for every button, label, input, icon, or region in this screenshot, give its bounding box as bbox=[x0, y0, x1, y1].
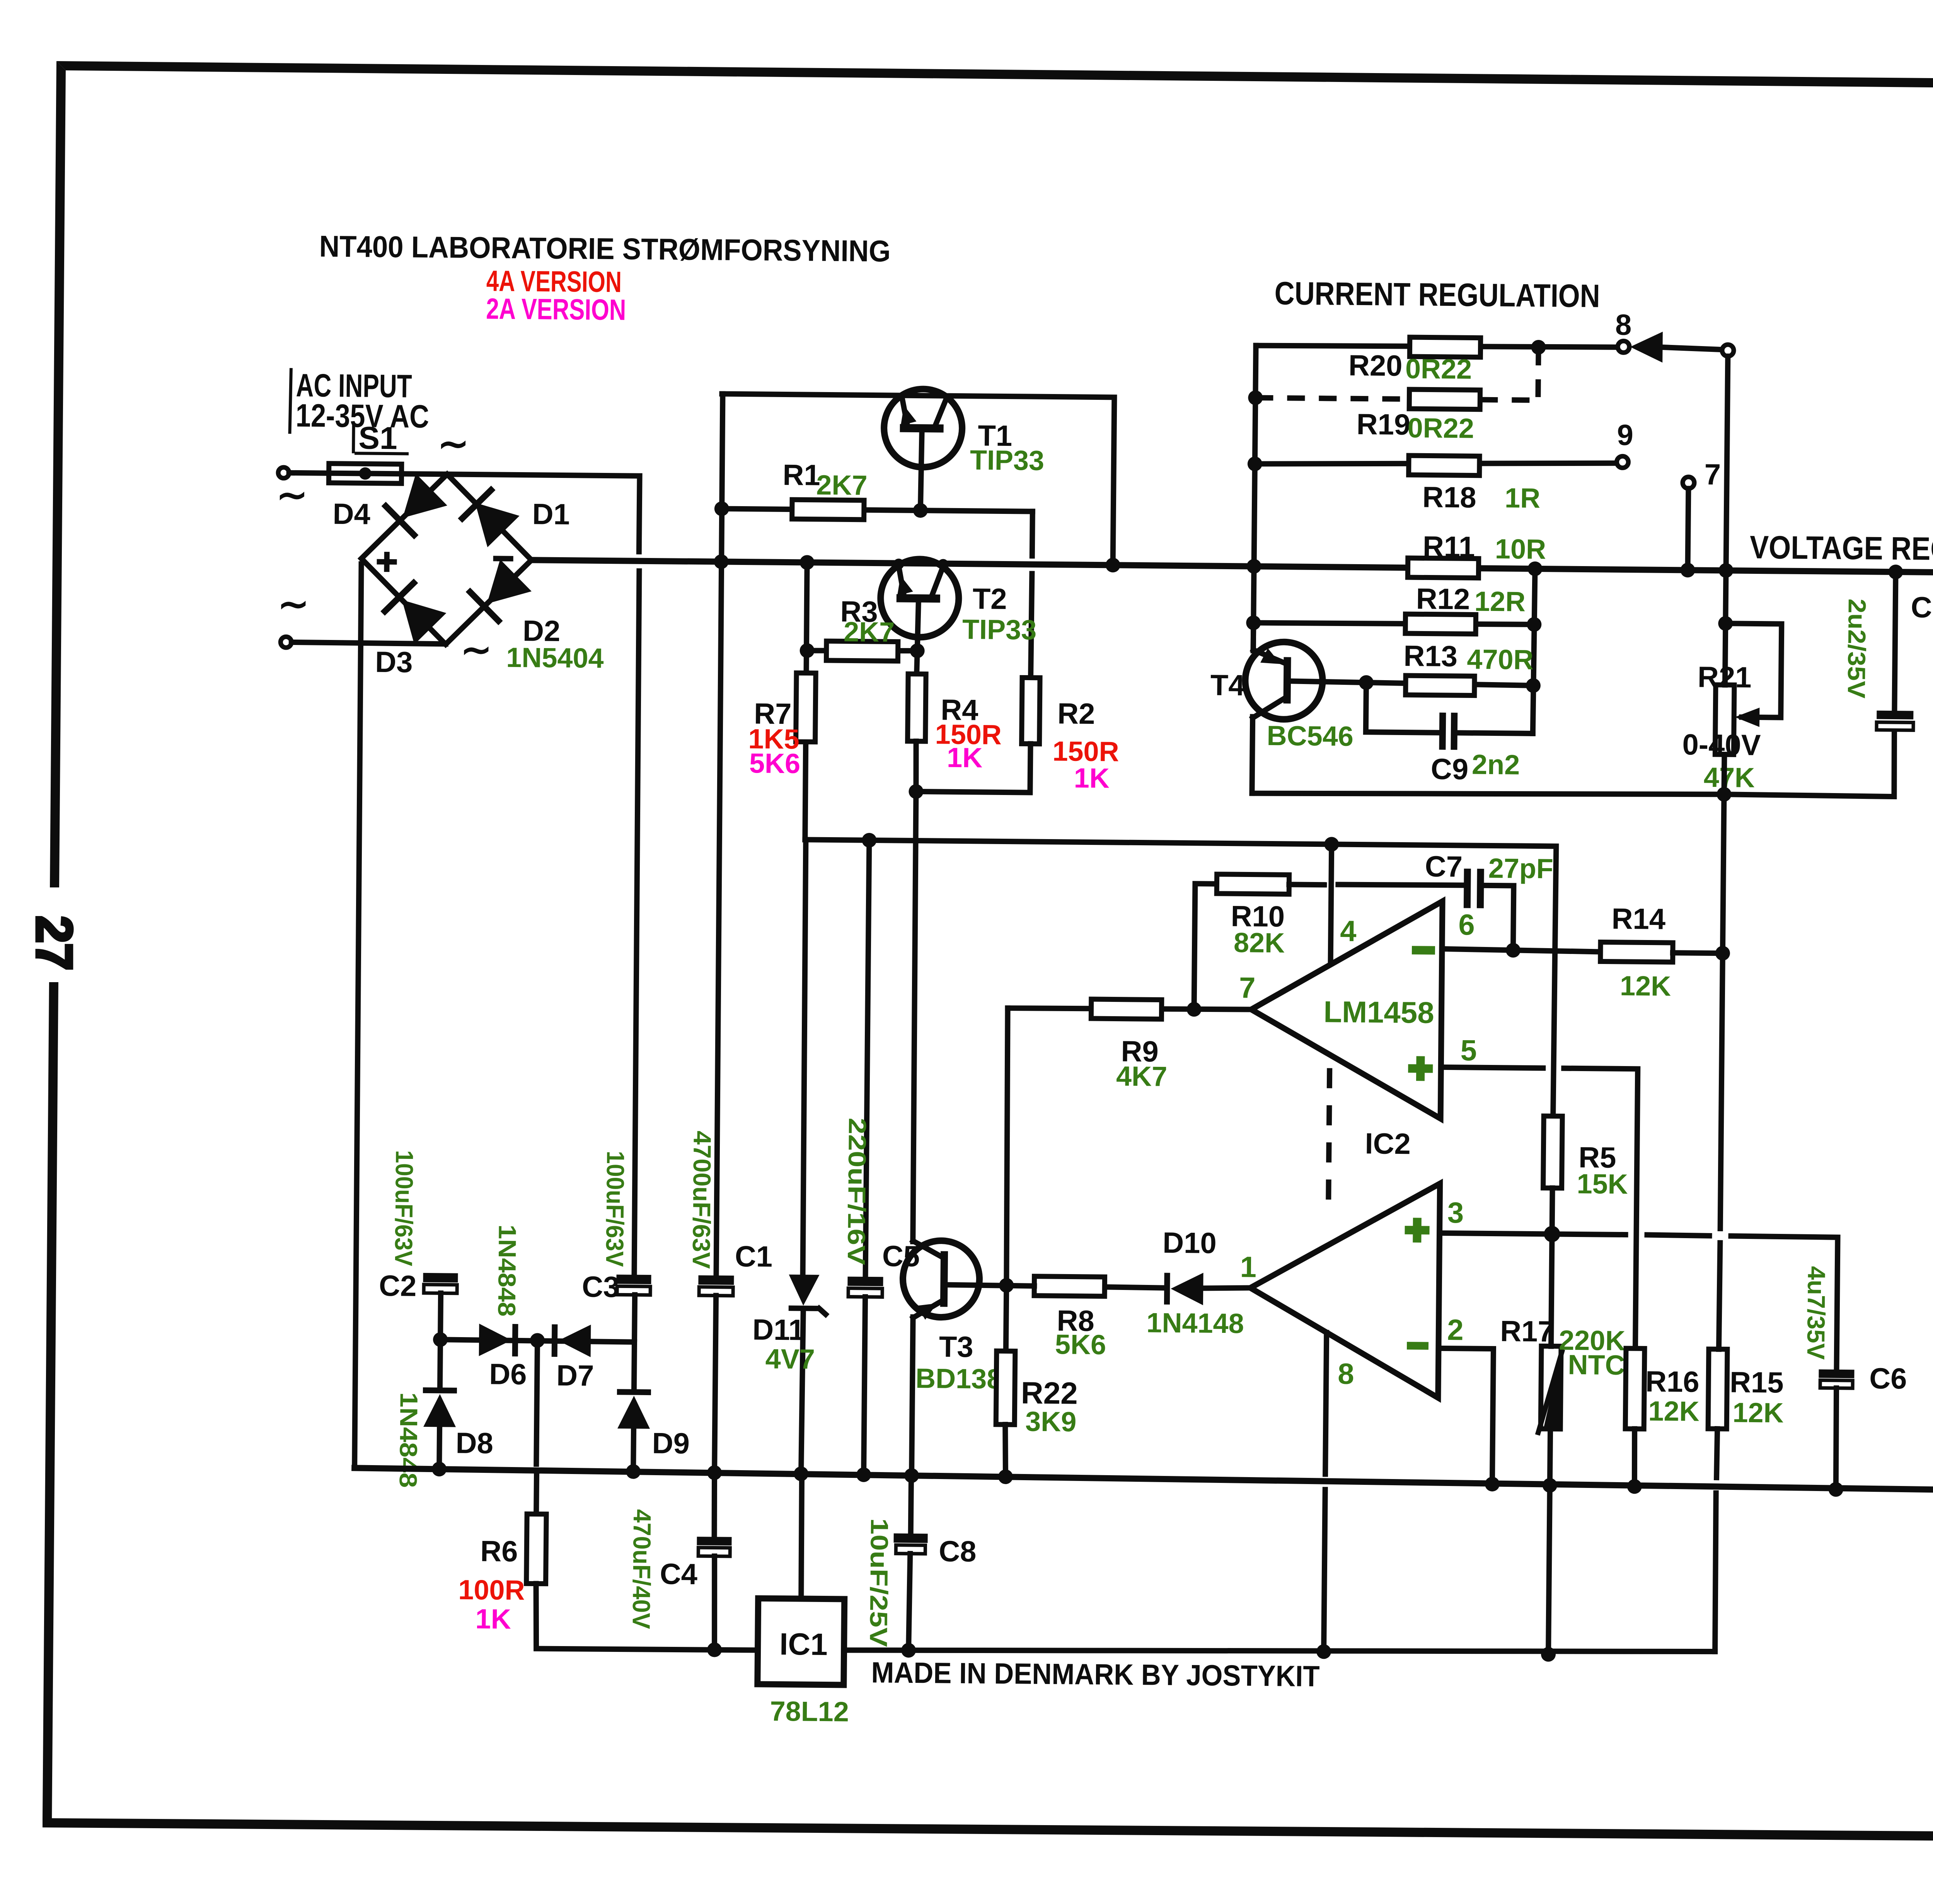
svg-text:2K7: 2K7 bbox=[816, 470, 868, 501]
svg-text:27pF: 27pF bbox=[1488, 853, 1553, 884]
node rail D11 IC1 bbox=[794, 1466, 808, 1481]
capacitor C7 bbox=[1464, 868, 1471, 908]
wire R12 row bbox=[1253, 622, 1534, 625]
node rail R22 bbox=[998, 1469, 1013, 1484]
svg-text:8: 8 bbox=[1338, 1358, 1354, 1390]
node T2 collector on bus bbox=[938, 559, 948, 570]
crop mark line left of AC INPUT bbox=[290, 368, 291, 434]
svg-text:4V7: 4V7 bbox=[765, 1344, 815, 1375]
svg-text:1: 1 bbox=[1240, 1251, 1256, 1283]
node bus/current-reg left column bbox=[1246, 559, 1261, 573]
svg-text:C8: C8 bbox=[939, 1535, 977, 1568]
svg-text:BC546: BC546 bbox=[1267, 720, 1353, 752]
svg-text:12K: 12K bbox=[1620, 971, 1671, 1002]
svg-text:D8: D8 bbox=[455, 1427, 493, 1460]
svg-text:1N4148: 1N4148 bbox=[1146, 1307, 1244, 1339]
svg-text:9: 9 bbox=[1617, 419, 1633, 452]
svg-text:MADE IN DENMARK BY JOSTYKIT: MADE IN DENMARK BY JOSTYKIT bbox=[871, 1656, 1320, 1693]
node pin8 column bottom bbox=[1316, 1644, 1331, 1659]
wire rail to IC1 row stub bbox=[1548, 1485, 1550, 1654]
svg-text:5K6: 5K6 bbox=[749, 748, 801, 779]
wire IC1 top stub bbox=[801, 1474, 802, 1599]
node rail D9 bbox=[626, 1464, 641, 1479]
node T2 base R3 bbox=[910, 643, 924, 658]
wire R22 bottom stub bbox=[1005, 1425, 1006, 1477]
svg-text:470uF/40V: 470uF/40V bbox=[627, 1509, 656, 1629]
plus sign IC2a bbox=[1408, 1056, 1433, 1081]
wire R14 right bbox=[1673, 953, 1723, 953]
svg-text:TIP33: TIP33 bbox=[970, 445, 1045, 476]
wire main bus bbox=[532, 560, 1933, 574]
wire bridge plus column down to bottom rail bbox=[353, 564, 362, 1468]
svg-text:S1: S1 bbox=[358, 420, 397, 456]
svg-text:5: 5 bbox=[1460, 1034, 1477, 1067]
diode D6 bbox=[479, 1324, 512, 1356]
minus sign IC2a bbox=[1412, 946, 1435, 955]
svg-text:D3: D3 bbox=[375, 646, 413, 679]
svg-text:1R: 1R bbox=[1505, 483, 1541, 514]
wire R10 branch up bbox=[1194, 884, 1217, 1009]
node T3 base/R9/R22 bbox=[999, 1278, 1014, 1293]
svg-text:C5: C5 bbox=[882, 1240, 920, 1273]
svg-text:2A VERSION: 2A VERSION bbox=[486, 292, 626, 326]
wire bottom rail bbox=[355, 1468, 1933, 1493]
svg-text:2: 2 bbox=[1447, 1314, 1464, 1346]
wire R22 stub bbox=[1006, 1285, 1006, 1351]
node R1 left bbox=[714, 501, 729, 516]
svg-text:10R: 10R bbox=[1495, 534, 1546, 565]
svg-text:1K: 1K bbox=[947, 742, 983, 774]
node T4 base / R13 left bbox=[1359, 675, 1374, 690]
arrow into terminal 8 bbox=[1630, 331, 1663, 363]
svg-text:220uF/16V: 220uF/16V bbox=[842, 1117, 871, 1265]
wire R13 row bbox=[1366, 682, 1534, 686]
resistor R13 bbox=[1406, 676, 1474, 696]
svg-text:D10: D10 bbox=[1163, 1227, 1217, 1260]
svg-text:7: 7 bbox=[1704, 458, 1721, 491]
svg-text:6: 6 bbox=[1458, 908, 1475, 941]
resistor R16 bbox=[1625, 1348, 1645, 1429]
svg-text:R11: R11 bbox=[1423, 530, 1475, 563]
svg-text:C10: C10 bbox=[1911, 591, 1933, 624]
svg-text:1K: 1K bbox=[1074, 763, 1110, 794]
node R4 bottom bbox=[909, 784, 923, 799]
capacitor C8 bbox=[911, 1476, 911, 1534]
svg-text:R12: R12 bbox=[1416, 582, 1470, 616]
svg-text:1N5404: 1N5404 bbox=[506, 642, 604, 674]
transistor T4 bbox=[1244, 623, 1367, 794]
resistor R19 bbox=[1409, 389, 1480, 409]
node C2/D6 bbox=[433, 1332, 448, 1347]
resistor R8 bbox=[1034, 1276, 1105, 1297]
node R13 right bbox=[1526, 678, 1541, 693]
capacitor C3 bbox=[616, 1274, 651, 1284]
svg-text:T4: T4 bbox=[1210, 669, 1245, 702]
terminal tap circle right of arrow bbox=[1722, 345, 1734, 356]
svg-text:C9: C9 bbox=[1431, 753, 1469, 786]
thermistor R17 bbox=[1541, 1346, 1561, 1429]
svg-text:4700uF/63V: 4700uF/63V bbox=[687, 1131, 716, 1269]
wire pin4 stem bbox=[1331, 844, 1332, 964]
wire T4 emitter row to C10 bbox=[1252, 725, 1894, 799]
svg-text:0R22: 0R22 bbox=[1405, 353, 1472, 385]
node T1 base bbox=[913, 503, 928, 518]
svg-text:2u2/35V: 2u2/35V bbox=[1843, 599, 1871, 699]
wire R21 bottom stub bbox=[1721, 754, 1727, 794]
wire D6 D7 row bbox=[440, 1339, 634, 1342]
svg-text:3: 3 bbox=[1447, 1196, 1464, 1229]
svg-text:C3: C3 bbox=[582, 1271, 620, 1304]
wire T2 base to R4 bbox=[917, 651, 917, 674]
frame top edge bbox=[56, 61, 1933, 93]
R21 wiper loop bbox=[1725, 623, 1781, 717]
node rail C6 bbox=[1829, 1482, 1843, 1497]
wire R1 junction down to R2 top (gap at bus) bbox=[1032, 512, 1033, 556]
dashed wire R19 row bbox=[1255, 348, 1538, 400]
node R10 branch bbox=[1186, 1002, 1201, 1017]
diode D2 bbox=[470, 592, 499, 621]
node rail C5 bbox=[856, 1467, 871, 1482]
op-amp IC2b triangle bbox=[1249, 1182, 1440, 1398]
wire terminal 7 stub bbox=[1688, 488, 1689, 570]
diode D4 bbox=[385, 506, 414, 535]
wire R9 column down bbox=[1005, 1008, 1009, 1285]
frame bottom edge bbox=[43, 1818, 1933, 1845]
svg-text:D11: D11 bbox=[752, 1313, 805, 1346]
svg-text:C4: C4 bbox=[660, 1558, 697, 1591]
node R3 left on R7 column bbox=[799, 643, 814, 658]
resistor R18 bbox=[1409, 456, 1480, 476]
svg-text:1K: 1K bbox=[475, 1604, 511, 1635]
wire pin1 apex to D10 bbox=[1202, 1288, 1250, 1289]
svg-text:∼: ∼ bbox=[278, 583, 309, 625]
svg-text:IC1: IC1 bbox=[779, 1627, 828, 1662]
wire C7 right down to pin6 bbox=[1483, 885, 1514, 950]
wire R15 column upper bbox=[1720, 794, 1724, 1228]
transistor T2 bbox=[880, 559, 959, 651]
diode D7 bbox=[552, 1324, 558, 1357]
node bus/C10 bbox=[1888, 565, 1903, 579]
wire pin2 row bbox=[1437, 1348, 1493, 1484]
wire R9 pin7 row bbox=[1008, 1007, 1251, 1010]
svg-text:82K: 82K bbox=[1234, 927, 1285, 959]
svg-text:R1: R1 bbox=[782, 459, 820, 492]
node rail stub bottom bbox=[1541, 1647, 1556, 1662]
node R21 top junction bbox=[1718, 616, 1733, 631]
wire R4 bottom junction row bbox=[915, 741, 1030, 793]
svg-text:BD138: BD138 bbox=[915, 1363, 1002, 1395]
terminal 7 bbox=[1682, 477, 1694, 488]
node R20 right dashed tap bbox=[1531, 340, 1546, 355]
node bus/R7 column bbox=[799, 555, 814, 570]
resistor R4 bbox=[908, 674, 926, 741]
svg-text:R18: R18 bbox=[1422, 481, 1476, 514]
node R18 left bbox=[1248, 456, 1262, 471]
diode D8 bbox=[423, 1387, 457, 1394]
wire left column (C1 column) bbox=[715, 394, 724, 1276]
svg-text:470R: 470R bbox=[1467, 644, 1534, 675]
AC terminal upper bbox=[278, 467, 289, 478]
frame left edge upper segment bbox=[50, 61, 66, 887]
minus sign IC2b bbox=[1407, 1342, 1428, 1350]
wire T3 base row bbox=[948, 1285, 1034, 1286]
capacitor C6 bbox=[1819, 1369, 1854, 1378]
svg-text:∼: ∼ bbox=[276, 474, 308, 516]
svg-text:8: 8 bbox=[1615, 309, 1632, 341]
node bus/right column bbox=[1527, 561, 1542, 576]
resistor R3 bbox=[826, 641, 898, 661]
svg-text:R16: R16 bbox=[1645, 1365, 1699, 1399]
svg-text:R20: R20 bbox=[1348, 349, 1403, 382]
node rail R16 bbox=[1627, 1479, 1642, 1494]
fuse S1 bbox=[329, 464, 401, 484]
wire R1 row bbox=[722, 509, 1033, 512]
svg-text:R21: R21 bbox=[1698, 661, 1752, 694]
svg-text:R22: R22 bbox=[1021, 1375, 1078, 1410]
capacitor C5 bbox=[866, 840, 869, 1278]
node R12 right bbox=[1527, 617, 1541, 632]
node rail R17 bbox=[1543, 1478, 1557, 1493]
dashed IC2 link bbox=[1328, 1068, 1330, 1212]
node bus/R21 column bbox=[1718, 563, 1733, 578]
svg-text:IC2: IC2 bbox=[1365, 1127, 1411, 1160]
wire R10 to C7 (jump over pin4 stem) bbox=[1289, 882, 1324, 887]
wire R5 bottom stub bbox=[1552, 1188, 1553, 1234]
resistor R5 bbox=[1543, 1116, 1563, 1188]
svg-text:12K: 12K bbox=[1732, 1397, 1784, 1428]
terminal 8 bbox=[1618, 341, 1629, 353]
svg-text:15K: 15K bbox=[1577, 1169, 1628, 1200]
resistor R11 (in series on bus) bbox=[1408, 558, 1478, 578]
svg-text:T3: T3 bbox=[939, 1331, 973, 1364]
svg-text:VOLTAGE REGULATION: VOLTAGE REGULATION bbox=[1750, 529, 1933, 568]
svg-text:4u7/35V: 4u7/35V bbox=[1802, 1266, 1831, 1360]
IC1 box bbox=[757, 1599, 844, 1685]
wire IC1 output row bbox=[844, 1644, 1715, 1658]
resistor R12 bbox=[1405, 614, 1476, 634]
svg-text:100uF/63V: 100uF/63V bbox=[390, 1150, 419, 1266]
resistor R22 bbox=[996, 1351, 1015, 1425]
diode D1 bbox=[462, 490, 491, 519]
svg-text:CURRENT REGULATION: CURRENT REGULATION bbox=[1274, 275, 1600, 314]
svg-text:47K: 47K bbox=[1704, 762, 1755, 793]
node rail pin2 bbox=[1485, 1477, 1500, 1491]
bridge plus sign bbox=[377, 552, 397, 572]
svg-text:5K6: 5K6 bbox=[1055, 1329, 1106, 1360]
capacitor C2 bbox=[423, 1273, 458, 1283]
svg-text:78L12: 78L12 bbox=[770, 1696, 849, 1728]
wire AC top jog to C3 column bbox=[447, 474, 640, 551]
wire R6 column bbox=[536, 1340, 537, 1464]
capacitor C10 bbox=[1894, 572, 1895, 711]
wire R18 row bbox=[1255, 460, 1617, 467]
wire R20 row bbox=[1256, 344, 1618, 349]
svg-text:∼: ∼ bbox=[460, 629, 492, 671]
wire pin6 row bbox=[1442, 949, 1601, 952]
svg-text:D7: D7 bbox=[556, 1359, 594, 1392]
svg-text:R17: R17 bbox=[1500, 1315, 1554, 1348]
node R21 bottom row bbox=[1717, 787, 1731, 802]
node R12 left bbox=[1246, 615, 1261, 630]
svg-text:100R: 100R bbox=[458, 1575, 525, 1606]
node R14 right on R21 column bbox=[1715, 946, 1730, 961]
svg-text:1N4848: 1N4848 bbox=[394, 1392, 423, 1488]
svg-text:27: 27 bbox=[26, 916, 83, 971]
node bus/T1 corner bbox=[1105, 558, 1120, 572]
wire D11 column bbox=[802, 840, 807, 1276]
wire R6 to IC1 row bbox=[535, 1583, 758, 1650]
node bus/left column bbox=[714, 554, 728, 569]
svg-text:C7: C7 bbox=[1425, 850, 1463, 883]
wire pin5 row (jump over R5 column) bbox=[1441, 1067, 1543, 1068]
svg-text:R2: R2 bbox=[1057, 697, 1095, 730]
svg-text:C1: C1 bbox=[735, 1240, 773, 1273]
wire D9 branch bbox=[634, 1342, 634, 1391]
svg-text:12R: 12R bbox=[1474, 586, 1526, 618]
svg-text:100uF/63V: 100uF/63V bbox=[601, 1151, 630, 1267]
node rail/C5 column bbox=[862, 833, 876, 848]
svg-text:0-40V: 0-40V bbox=[1682, 728, 1761, 762]
svg-text:4K7: 4K7 bbox=[1116, 1061, 1168, 1092]
wire R4 column down to T3 bbox=[912, 792, 917, 1242]
op-amp IC2a triangle bbox=[1250, 900, 1442, 1119]
wire C9 branch bbox=[1366, 682, 1439, 733]
wire AC lower lead bbox=[291, 642, 446, 644]
node R19 left bbox=[1248, 390, 1263, 405]
svg-text:D6: D6 bbox=[489, 1358, 527, 1391]
svg-text:T2: T2 bbox=[972, 582, 1007, 616]
wire current-reg right column bbox=[1533, 569, 1535, 734]
bridge minus sign bbox=[493, 556, 513, 561]
wire pin8 stub bbox=[1325, 1332, 1326, 1474]
diode D10 bbox=[1164, 1273, 1170, 1305]
wire R15 column bottom corner bbox=[1715, 1493, 1717, 1651]
resistor R9 bbox=[1091, 999, 1161, 1019]
frame left edge lower segment bbox=[43, 982, 58, 1827]
resistor R2 bbox=[1022, 677, 1040, 744]
node C4 bottom bbox=[707, 1642, 722, 1657]
node bus/terminal7 bbox=[1680, 563, 1695, 577]
resistor R20 bbox=[1410, 337, 1480, 357]
resistor R1 bbox=[792, 500, 864, 520]
transistor T1 bbox=[883, 389, 963, 511]
svg-text:R14: R14 bbox=[1611, 903, 1665, 936]
wire R21 column upper bbox=[1725, 356, 1728, 623]
wire AC upper lead bbox=[289, 470, 329, 476]
diode D9 bbox=[617, 1389, 651, 1395]
node rail C1 C4 bbox=[707, 1465, 722, 1480]
svg-text:D9: D9 bbox=[652, 1427, 690, 1460]
svg-text:4: 4 bbox=[1340, 915, 1357, 948]
svg-text:3K9: 3K9 bbox=[1025, 1406, 1077, 1438]
svg-text:0R22: 0R22 bbox=[1407, 413, 1474, 444]
node C7/pin6 bbox=[1506, 943, 1520, 957]
resistor R6 bbox=[527, 1514, 547, 1583]
resistor R14 bbox=[1601, 942, 1673, 962]
svg-text:NT400 LABORATORIE STRØMFORSYNI: NT400 LABORATORIE STRØMFORSYNING bbox=[319, 229, 891, 268]
capacitor C1 bbox=[698, 1275, 734, 1285]
node C8 bottom bbox=[901, 1643, 916, 1658]
wire R3 row bbox=[807, 650, 917, 652]
svg-text:7: 7 bbox=[1239, 971, 1256, 1004]
svg-text:D4: D4 bbox=[332, 498, 370, 531]
svg-text:10uF/25V: 10uF/25V bbox=[864, 1518, 893, 1647]
svg-text:2n2: 2n2 bbox=[1472, 749, 1520, 781]
svg-text:C6: C6 bbox=[1869, 1362, 1907, 1396]
AC terminal lower bbox=[281, 637, 291, 648]
wire top rail T1 bbox=[721, 394, 1115, 565]
svg-text:LM1458: LM1458 bbox=[1323, 995, 1434, 1029]
resistor R10 bbox=[1217, 874, 1289, 894]
svg-text:TIP33: TIP33 bbox=[962, 614, 1037, 646]
node pin3/R5/R17 cross bbox=[1544, 1226, 1560, 1242]
bridge rectifier diamond bbox=[361, 473, 532, 645]
transistor T3 bbox=[901, 1240, 980, 1475]
node rail D8 bbox=[432, 1462, 447, 1476]
node D6 D7 center R6 bbox=[530, 1333, 545, 1348]
diode D3 bbox=[385, 583, 414, 612]
svg-text:R15: R15 bbox=[1730, 1366, 1784, 1399]
wire D8 branch bbox=[440, 1339, 440, 1389]
zener D11 bbox=[789, 1274, 820, 1306]
svg-text:12K: 12K bbox=[1648, 1396, 1699, 1427]
svg-text:D1: D1 bbox=[532, 498, 570, 531]
terminal 9 bbox=[1617, 456, 1628, 468]
capacitor C9 bbox=[1439, 713, 1446, 750]
svg-text:NTC: NTC bbox=[1568, 1350, 1625, 1381]
wire current-reg left column bbox=[1253, 346, 1256, 651]
wire arrow to tap circle bbox=[1660, 347, 1722, 350]
node T2 emitter on bus bbox=[893, 558, 904, 569]
wire R7 column bbox=[805, 563, 807, 840]
node rail/pin4 stem bbox=[1324, 837, 1339, 851]
svg-text:∼: ∼ bbox=[438, 423, 469, 465]
potentiometer R21 bbox=[1715, 685, 1734, 754]
node rail T3 C8 bbox=[904, 1468, 919, 1483]
svg-text:R13: R13 bbox=[1403, 640, 1457, 673]
plus sign IC2b bbox=[1405, 1218, 1430, 1243]
svg-text:R6: R6 bbox=[480, 1535, 518, 1568]
capacitor C4 bbox=[714, 1473, 715, 1538]
wire +12V rail bbox=[803, 839, 1556, 1116]
wire R8 to D10 bbox=[1105, 1287, 1164, 1288]
wire fuse to bridge top bbox=[402, 474, 447, 474]
svg-text:1N4848: 1N4848 bbox=[493, 1224, 522, 1317]
wire pin3 row with jumps bbox=[1440, 1233, 1626, 1235]
resistor R7 bbox=[796, 673, 816, 742]
resistor R15 bbox=[1708, 1349, 1727, 1429]
svg-text:R19: R19 bbox=[1356, 408, 1410, 441]
svg-text:2K7: 2K7 bbox=[844, 616, 895, 648]
svg-text:C2: C2 bbox=[379, 1269, 417, 1303]
